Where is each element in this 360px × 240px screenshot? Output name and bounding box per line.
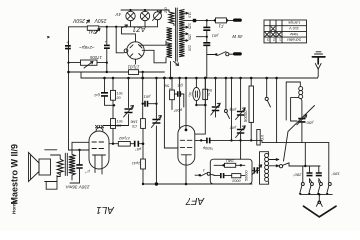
wire main horizontal bus — [81, 77, 318, 79]
resistor screen upper — [111, 90, 116, 100]
svg-text:50000: 50000 — [245, 170, 249, 181]
junction H1 left — [67, 71, 70, 74]
speck mark — [48, 36, 50, 38]
switch contact w2 — [310, 183, 313, 186]
wire heater rail — [125, 26, 158, 28]
speaker frame bracket — [45, 150, 57, 182]
junction pot left — [67, 62, 69, 64]
svg-text:(µ1: (µ1 — [94, 93, 100, 98]
svg-text:110 V: 110 V — [289, 26, 299, 31]
IF coil loops — [265, 153, 269, 157]
winding primary — [179, 10, 185, 57]
winding heater 4V — [169, 12, 174, 24]
switch contact w3 — [319, 183, 322, 186]
svg-text:13e: 13e — [117, 120, 123, 124]
switch mains — [215, 53, 217, 55]
winding output primary — [69, 154, 75, 175]
trimmer padder lower — [237, 130, 244, 134]
svg-text:180⁾: 180⁾ — [331, 172, 340, 177]
fuse F1 — [216, 18, 227, 23]
switch wave 1 — [195, 174, 200, 176]
resistor 1741 — [87, 26, 99, 30]
mains plug pin lower — [233, 52, 242, 55]
potentiometer 17006 — [81, 60, 98, 65]
trimmer grid cap — [103, 78, 129, 126]
resistor screen lower — [111, 119, 116, 129]
bus junction dots — [103, 77, 106, 80]
top cap x marks — [96, 125, 104, 128]
svg-text:150: 150 — [188, 34, 192, 40]
svg-text:AZ1: AZ1 — [132, 25, 146, 34]
wire AL1 grid feed — [69, 149, 90, 151]
svg-text:+: + — [104, 40, 107, 45]
capacitor 280 — [309, 166, 311, 183]
tube AZ1 anodes — [130, 45, 142, 57]
svg-text:1: 1 — [279, 38, 281, 42]
tube AL1 top cap — [96, 128, 103, 131]
wire coil to trimmer — [301, 99, 302, 118]
resistor 1MO — [225, 163, 236, 167]
wire osc col — [231, 78, 233, 140]
svg-text:Maestro W II/9: Maestro W II/9 — [10, 144, 20, 205]
winding HV secondary — [167, 28, 173, 41]
wire grid feed AF7 — [164, 78, 178, 148]
speaker driver — [39, 159, 51, 175]
svg-text:Netz: Netz — [290, 32, 298, 37]
tube AF7 cathode — [181, 155, 191, 165]
mains plug pin upper — [233, 19, 242, 22]
svg-text:µ05⁷: µ05⁷ — [173, 108, 182, 113]
wire anode top feed — [122, 27, 136, 42]
tube AL1 pins — [95, 155, 102, 174]
junction on B+ rail — [115, 26, 117, 28]
wire oscillator diagonal — [284, 106, 315, 162]
svg-text:110: 110 — [188, 12, 192, 18]
wire center tap link — [196, 36, 206, 38]
wire plate col — [142, 104, 144, 184]
capacitor 5000 — [207, 138, 210, 144]
table voltage selector grid — [264, 20, 307, 43]
svg-text:280⁾: 280⁾ — [293, 173, 303, 178]
wire primary tap to fuse — [184, 19, 215, 21]
svg-text:AL1: AL1 — [96, 204, 115, 215]
primary tap arrows — [185, 12, 189, 41]
junction mains left — [206, 19, 208, 21]
svg-text:17006: 17006 — [90, 55, 102, 60]
tube AZ1 pin bump — [124, 49, 128, 53]
lamp La3 tuning indicator — [154, 12, 162, 20]
svg-text:µ02: µ02 — [229, 126, 236, 130]
wire AF7 top feeds — [179, 78, 181, 128]
svg-text:µ02: µ02 — [229, 108, 236, 112]
wire bus jog — [80, 72, 82, 78]
svg-text:125: 125 — [188, 23, 192, 29]
svg-text:230V 36mA: 230V 36mA — [65, 184, 90, 189]
svg-text:µ50: µ50 — [306, 121, 314, 126]
wire antenna down lead — [316, 69, 319, 78]
svg-text:3: 3 — [267, 38, 269, 42]
output transformer core — [65, 153, 67, 175]
svg-text:1Me: 1Me — [130, 119, 137, 123]
capacitor electrolytic C 8uF left — [65, 46, 71, 49]
svg-text:20: 20 — [116, 96, 122, 100]
wire transformer shield to bus — [170, 62, 172, 79]
capacitor u1 coupling mid — [175, 94, 184, 107]
trimmer antenna u50 — [298, 119, 305, 122]
wire to cap bank — [289, 163, 320, 166]
transformer core — [176, 8, 178, 61]
capacitor det — [221, 173, 224, 178]
speaker loop wiring — [46, 176, 57, 190]
table X marks — [265, 27, 281, 37]
svg-text:5M: 5M — [206, 88, 212, 92]
tube AL1 envelope — [89, 131, 109, 169]
svg-text:250V: 250V — [94, 17, 107, 23]
wire trimmer down — [301, 122, 303, 143]
wire B+ rail y=26.8 — [69, 26, 126, 28]
svg-text:17µ31: 17µ31 — [128, 64, 140, 69]
junction pot right — [106, 62, 108, 64]
switch contact osc — [266, 78, 268, 97]
wire AF7 anode side — [195, 78, 206, 134]
svg-text:3.0: 3.0 — [261, 135, 265, 140]
IF coil frame — [260, 152, 269, 185]
wire mains dropper down — [207, 20, 216, 54]
tube AL1 grids — [92, 142, 104, 149]
switch wave osc — [279, 165, 282, 168]
svg-text:2,0: 2,0 — [163, 7, 168, 14]
antenna coil frame — [286, 82, 300, 120]
svg-text:µ⁺: µ⁺ — [84, 170, 89, 175]
resistor 17V02 — [118, 142, 130, 147]
svg-text:1MΩ: 1MΩ — [226, 159, 234, 163]
capacitor u01 series — [143, 78, 157, 104]
capacitor u1 decoupling — [104, 78, 106, 104]
svg-text:C0: C0 — [131, 124, 137, 128]
lamp La1 — [126, 11, 135, 20]
wire primary top to AL1 anode line — [72, 142, 89, 154]
svg-text:250V: 250V — [73, 17, 86, 23]
wire right feed — [276, 78, 278, 143]
svg-text:F1: F1 — [219, 24, 224, 29]
svg-text:1: 1 — [203, 168, 205, 172]
svg-text:µ5⁾: µ5⁾ — [135, 147, 142, 152]
tube AF7 grids — [180, 140, 192, 147]
wire primary bottom — [71, 175, 73, 180]
wire fuse to plug — [227, 19, 234, 21]
switch contact w1 — [302, 166, 304, 183]
junction osc dots — [239, 139, 241, 141]
wire right verticals — [305, 143, 329, 183]
svg-text:~2×8µ~: ~2×8µ~ — [79, 45, 95, 50]
capacitor mains filter lower — [203, 43, 210, 46]
junction H1 right — [142, 71, 144, 73]
svg-text:50000: 50000 — [243, 110, 248, 122]
svg-text:2: 2 — [273, 38, 275, 42]
tube AF7 envelope — [178, 126, 195, 166]
svg-text:C3: C3 — [117, 124, 123, 128]
svg-text:1: 1 — [169, 87, 171, 91]
capacitor 4u cathode — [79, 150, 81, 165]
wire pot leads — [69, 62, 107, 64]
svg-text:2: 2 — [208, 92, 211, 96]
coil 50000 — [249, 86, 254, 122]
core earth arrow — [174, 61, 179, 65]
wire AF7 screen right — [195, 140, 329, 142]
svg-text:⁷500µ: ⁷500µ — [202, 146, 213, 151]
antenna symbol — [315, 52, 323, 54]
trimmer det right — [254, 167, 257, 173]
wire H1 to bus stub — [142, 72, 144, 78]
antenna coil tap — [291, 98, 299, 121]
resistor 5M1 — [170, 90, 175, 100]
svg-text:5M: 5M — [163, 83, 169, 87]
wire mains switch line down to bus — [206, 55, 208, 79]
svg-text:1741: 1741 — [88, 30, 97, 35]
resistor 2000 — [232, 174, 241, 178]
tube AF7 anode dot — [185, 129, 188, 132]
wire AZ1 to transformer winding top — [141, 41, 167, 45]
capacitor 180 — [318, 166, 320, 183]
capacitor mains filter upper — [203, 27, 210, 30]
wire left rail down — [68, 27, 70, 150]
lamp La2 — [140, 11, 149, 20]
ground chevron — [304, 206, 337, 217]
wire switch common — [300, 193, 332, 195]
svg-text:µ01: µ01 — [212, 34, 219, 39]
svg-text:Schalter: Schalter — [286, 38, 301, 43]
IF coil tap arrows — [269, 159, 279, 167]
trimmer osc left — [215, 78, 217, 106]
tube AZ1 envelope — [127, 42, 144, 59]
wire AF7 cathode to bus — [185, 165, 187, 184]
svg-text:Lampe: Lampe — [288, 20, 300, 25]
capacitor u5 series — [130, 143, 143, 145]
terminal square — [193, 19, 196, 22]
wire AZ1 cathode down — [135, 59, 137, 64]
coil W2 oval — [193, 87, 200, 100]
arrow on heater rail — [123, 25, 128, 28]
switch contact w4 — [328, 183, 331, 186]
switch contact I7 — [225, 78, 227, 110]
svg-text:13e: 13e — [117, 92, 123, 96]
detector network box — [210, 159, 252, 184]
svg-text:W₂: W₂ — [188, 92, 192, 97]
svg-text:AF7: AF7 — [185, 195, 205, 206]
winding rectifier heater — [167, 43, 173, 58]
svg-text:45 W: 45 W — [232, 34, 243, 39]
resistor plate upper — [141, 119, 146, 129]
svg-text:Horny: Horny — [12, 200, 17, 214]
junction on B+ rail — [106, 26, 108, 28]
svg-text:0002: 0002 — [231, 178, 240, 182]
svg-text:4V: 4V — [115, 12, 121, 17]
svg-text:17µ02: 17µ02 — [118, 136, 130, 141]
antenna coil loops — [299, 87, 303, 91]
tube AL1 cathode — [93, 154, 106, 156]
trimmer padder upper — [240, 78, 242, 110]
wire y105 link — [105, 104, 115, 105]
svg-text:220: 220 — [188, 45, 192, 51]
coil 3.0 — [257, 130, 260, 146]
wire ground stem — [318, 194, 320, 200]
wire upper rail H1 — [69, 71, 165, 73]
winding voice coil — [57, 159, 63, 175]
capacitor electrolytic C 8uF right — [104, 45, 110, 48]
svg-text:1µ41: 1µ41 — [132, 161, 140, 165]
resistor 5M2 — [203, 89, 208, 99]
wire AZ1 to transformer winding bottom — [142, 50, 166, 63]
resistor 1731 — [129, 70, 139, 75]
svg-text:+: + — [66, 40, 69, 45]
wire lamp top rail — [121, 9, 169, 11]
speaker cone — [29, 153, 40, 182]
arrow marker between 250V labels — [87, 20, 90, 23]
wire filament left feed — [116, 27, 124, 53]
svg-text:µ01: µ01 — [144, 95, 151, 100]
resistor cathode lower — [141, 159, 146, 169]
wire AL1 anode right — [109, 143, 118, 145]
wire bottom bus — [143, 183, 252, 185]
trimmer volume — [155, 78, 157, 184]
